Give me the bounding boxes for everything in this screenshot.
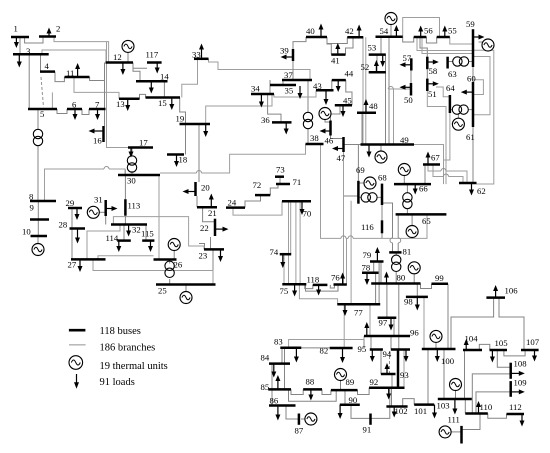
svg-text:117: 117 [146, 50, 159, 60]
load at bus 7 [97, 109, 99, 115]
bus 104 [463, 349, 482, 352]
bus 63 [446, 57, 449, 69]
wire 83-85 [284, 348, 286, 390]
wire g65 [411, 214, 413, 225]
svg-text:98: 98 [404, 297, 413, 307]
wire 40-42 [327, 37, 347, 44]
bus 55 [437, 36, 450, 39]
bus 5 [28, 108, 57, 111]
bus 18 [167, 153, 184, 156]
bus 56 [414, 36, 427, 39]
bus 7 [89, 108, 106, 111]
load at bus 3 [18, 54, 20, 62]
bus 30 [118, 174, 160, 177]
wire g31 [99, 211, 106, 213]
svg-text:38: 38 [310, 133, 319, 143]
wire 75-118 [305, 284, 313, 288]
bus 102 [386, 405, 407, 408]
thermal unit at bus 66 [398, 164, 410, 176]
svg-text:93: 93 [400, 370, 409, 380]
load at bus 52d [382, 55, 384, 62]
load at bus 56 [420, 31, 422, 37]
wire 89-92 [358, 388, 370, 395]
bus 52 [369, 71, 386, 74]
load at bus 19 [205, 124, 207, 132]
wire 94d (dashed) [389, 351, 391, 373]
svg-text:115: 115 [141, 229, 154, 239]
wire 19-18 [185, 124, 187, 155]
wire 34-36 [268, 94, 281, 122]
bus 48 [357, 112, 376, 115]
svg-text:20: 20 [201, 183, 210, 193]
bus 25 [156, 283, 216, 286]
wire g59 [479, 42, 483, 45]
wire 6-7 [82, 109, 89, 115]
wire 51-58 [426, 69, 428, 78]
bus 105 [490, 349, 508, 352]
bus 54 [376, 36, 403, 39]
svg-text:21: 21 [208, 208, 217, 218]
load at bus 86 [277, 406, 279, 416]
wire 96-95 [370, 336, 372, 350]
bus 67 [423, 163, 440, 166]
load at bus 76 [342, 278, 344, 285]
wire 21-22 [203, 207, 215, 222]
load at bus 43 [325, 90, 327, 99]
svg-text:50: 50 [404, 95, 413, 105]
bus 60 [472, 82, 475, 104]
bus 84 [269, 362, 290, 365]
svg-text:37: 37 [284, 70, 293, 80]
wire 49-53 [385, 55, 387, 145]
bus 29 [68, 207, 82, 210]
wire 41-42 [346, 37, 354, 54]
load at bus 84 [273, 364, 275, 372]
wire g69 [358, 182, 364, 184]
wire 101-102 [403, 399, 415, 407]
wire 35-37 [282, 80, 284, 85]
load at bus 70 [301, 201, 303, 209]
load at bus 42 [358, 30, 360, 37]
svg-text:112: 112 [509, 402, 522, 412]
load at bus 108 [511, 372, 520, 374]
svg-text:1: 1 [14, 24, 18, 34]
bus 100 [422, 348, 456, 351]
bus 16 [102, 126, 105, 142]
wire g89 [340, 381, 342, 390]
bus 117 [147, 61, 162, 64]
transformer 25-26 [165, 261, 174, 270]
wire 96-94b [390, 336, 392, 350]
load at bus 40 [320, 29, 322, 37]
transformer 81-80 [392, 255, 401, 264]
svg-text:74: 74 [270, 247, 279, 257]
svg-text:44: 44 [345, 69, 354, 79]
svg-text:19: 19 [176, 114, 185, 124]
svg-text:81: 81 [403, 247, 412, 257]
load at bus 59 [473, 36, 479, 38]
wire 114-32 [123, 225, 125, 241]
load at bus 74 [282, 254, 284, 262]
wire 85-86 [271, 389, 273, 405]
load at bus 104 [465, 345, 467, 351]
wire g103 [455, 391, 457, 399]
bus 62 [459, 182, 477, 185]
wire 106-107 [499, 298, 524, 350]
bus 66 [394, 183, 431, 186]
bus 73 [275, 175, 284, 178]
load at bus 18 [176, 155, 178, 162]
wire 103-110 [464, 399, 466, 414]
bus 94 [381, 373, 396, 376]
svg-text:49: 49 [400, 135, 409, 145]
load at bus 115 [150, 241, 152, 247]
svg-text:186 branches: 186 branches [100, 343, 156, 354]
wire 11-12 [90, 77, 105, 81]
svg-text:64: 64 [446, 83, 455, 93]
load at bus 78 [366, 273, 368, 280]
svg-text:2: 2 [56, 24, 60, 34]
wire 27-26 [98, 256, 154, 260]
wire 68-81a2 [392, 243, 394, 253]
wire 99-100 [447, 284, 449, 349]
wire 5-8x [37, 109, 39, 130]
bus 80 [371, 282, 420, 285]
load at bus 75 [294, 284, 296, 291]
wire 12-16 [104, 63, 106, 127]
transformer 69-68 [361, 193, 370, 202]
wire 110-112 [488, 414, 507, 419]
load at bus 6 [74, 109, 76, 115]
legend: buses symbol [69, 329, 86, 332]
wire 4-11 [55, 72, 64, 82]
load at bus 94 [386, 369, 388, 375]
load at bus 103 [454, 399, 456, 409]
wire 96-82 [363, 336, 365, 348]
wire 19-20 [198, 124, 200, 182]
wire 68-81a [382, 203, 393, 238]
thermal unit at bus 59 [482, 39, 494, 51]
wire 100-106 [451, 298, 494, 349]
load at bus 48 [365, 105, 367, 113]
bus 58 [426, 57, 429, 69]
svg-text:59: 59 [466, 19, 475, 29]
svg-text:10: 10 [22, 227, 31, 237]
wire 5-8y [37, 146, 39, 202]
bus 6 [67, 108, 82, 111]
wire 84-85 [271, 364, 273, 390]
svg-text:29: 29 [66, 198, 75, 208]
bus 85 [268, 388, 291, 391]
wire 53-54 [380, 37, 382, 55]
svg-text:92: 92 [370, 377, 379, 387]
svg-text:60: 60 [467, 74, 476, 84]
wire 38-65c [353, 214, 427, 238]
load at bus 58 [427, 61, 433, 63]
bus 20 [194, 182, 197, 196]
wire 110-111 [462, 414, 481, 430]
bus 10 [31, 235, 48, 238]
bus 46 [329, 121, 332, 136]
wire 79-80 [380, 262, 382, 284]
bus 14 [136, 80, 168, 83]
svg-text:95: 95 [358, 344, 367, 354]
wire 77-95 [369, 304, 371, 336]
bus 97 [378, 316, 397, 319]
svg-text:113: 113 [128, 201, 141, 211]
thermal unit at bus 65 [406, 226, 418, 238]
wire 66-67 [424, 165, 426, 185]
bus 2 [39, 35, 56, 38]
wire 12-117 [133, 63, 147, 69]
bus 118 [313, 284, 328, 287]
wire 17-30y [131, 171, 133, 175]
load at bus 45 [342, 105, 344, 111]
bus 78 [362, 272, 379, 275]
bus 83 [280, 346, 301, 349]
transformer 30-17 [127, 156, 136, 165]
wire hop 67-62b at 446 [444, 174, 449, 177]
svg-text:4: 4 [45, 61, 50, 71]
legend: loads symbol [76, 374, 78, 383]
svg-text:108: 108 [514, 359, 528, 369]
svg-text:61: 61 [466, 132, 475, 142]
load at bus 57 [405, 64, 411, 66]
wire 59-63b [469, 61, 473, 63]
bus 47 [342, 137, 345, 152]
bus 95 [370, 348, 383, 351]
svg-text:24: 24 [228, 198, 237, 208]
bus 50 [410, 83, 413, 96]
svg-text:103: 103 [437, 401, 450, 411]
bus 110 [465, 412, 488, 415]
load at bus 88 [310, 389, 312, 395]
wire 96-93 [398, 336, 400, 350]
load at bus 118 [318, 285, 320, 290]
bus 1 [11, 36, 29, 39]
wire 104-105 [479, 344, 490, 350]
bus 89 [331, 389, 358, 392]
wire 43-44 [331, 80, 333, 90]
svg-text:70: 70 [303, 209, 312, 219]
svg-text:96: 96 [410, 328, 419, 338]
wire g25 [185, 285, 187, 293]
wire g12 [127, 52, 129, 62]
wire 49-50 [388, 89, 393, 145]
wire 47-49 [344, 144, 361, 146]
wire 72-71 [270, 184, 278, 195]
wire g26 [173, 250, 175, 259]
bus 3 [13, 53, 49, 56]
wire 65-81b [397, 243, 399, 253]
load at bus 50 [405, 86, 411, 88]
wire 59-62 [473, 50, 494, 184]
svg-text:91 loads: 91 loads [100, 377, 135, 388]
wire 80-98 [416, 284, 418, 297]
bus 82 [330, 347, 353, 350]
svg-text:19 thermal units: 19 thermal units [100, 361, 168, 372]
svg-text:109: 109 [514, 378, 527, 388]
wire 37-38y [307, 129, 309, 144]
wire 89-90 [344, 390, 346, 405]
svg-text:79: 79 [363, 250, 372, 260]
load at bus 1 [15, 37, 17, 43]
svg-text:106: 106 [505, 286, 519, 296]
svg-text:47: 47 [337, 153, 346, 163]
wire 55-56 [426, 37, 436, 43]
wire 30-25 [158, 175, 160, 260]
svg-text:16: 16 [93, 136, 102, 146]
svg-text:84: 84 [261, 353, 270, 363]
wire 104-103 [464, 350, 466, 399]
wire 3-12 [42, 50, 106, 63]
bus 43 [316, 89, 334, 92]
wire 60-61c [473, 80, 483, 95]
wire g66 [403, 175, 405, 184]
wire 92-102 [391, 388, 393, 407]
legend: thermal unit symbol [69, 356, 83, 370]
load at bus 106 [495, 291, 497, 298]
wire 19-34 [206, 94, 272, 124]
load at bus 14 [150, 81, 152, 88]
bus 38 [306, 143, 324, 146]
bus 40 [306, 36, 327, 39]
svg-text:14: 14 [160, 72, 169, 82]
wire 34-43 [274, 90, 316, 97]
load at bus 51 [427, 83, 433, 85]
wire 85-88 [291, 389, 303, 394]
bus 57 [410, 58, 413, 70]
wire g111 [451, 431, 461, 433]
svg-text:3: 3 [26, 46, 30, 56]
bus 8 [30, 200, 56, 203]
wire g46 [325, 119, 331, 122]
wire 31-32 [105, 216, 107, 225]
svg-text:111: 111 [448, 415, 460, 425]
bus 86 [269, 404, 296, 407]
svg-text:30: 30 [127, 176, 136, 186]
load at bus 96d [405, 350, 407, 357]
wire 74-75 [283, 254, 285, 284]
bus 22 [214, 219, 217, 236]
load at bus 29 [76, 208, 78, 215]
bus 92 [369, 386, 404, 389]
wire 65-76 [346, 238, 348, 284]
svg-text:5: 5 [40, 109, 44, 119]
wire 24-70 [233, 201, 282, 215]
wire 37-39 [292, 61, 294, 80]
load at bus 23 [220, 249, 222, 256]
wire 98-100 [423, 297, 425, 349]
wire 56-58 [420, 37, 427, 57]
thermal unit at bus 54 [385, 13, 397, 25]
bus 114 [117, 239, 131, 242]
wire 14-15 [163, 81, 165, 97]
wire 28-27 [71, 229, 73, 260]
thermal unit at bus 61 [452, 118, 464, 130]
wire 22-23 [210, 237, 212, 249]
wire 68-69y [377, 196, 382, 198]
wire 25-26y [169, 279, 171, 285]
bus 35 [270, 84, 296, 87]
wire 67-62b [433, 165, 444, 177]
bus 72 [255, 194, 270, 197]
wire 100-103 [443, 349, 445, 399]
load at bus 13 [127, 99, 129, 106]
svg-text:55: 55 [448, 26, 457, 36]
load at bus 114 [118, 241, 120, 247]
svg-text:17: 17 [139, 138, 148, 148]
load at bus 101 [434, 405, 436, 413]
wire 23-32 [113, 217, 204, 250]
bus 12 [106, 61, 134, 64]
bus 17 [128, 146, 153, 149]
svg-text:118 buses: 118 buses [100, 326, 141, 337]
svg-text:48: 48 [369, 101, 378, 111]
wire 75-77 [299, 284, 337, 304]
wire 50-57 [410, 71, 412, 84]
load at bus 98 [416, 297, 418, 305]
wire 66-65x [406, 184, 408, 193]
load at bus 80 [386, 277, 388, 284]
wire 54-56 [403, 37, 414, 42]
load at bus 83 [295, 348, 297, 357]
svg-text:6: 6 [72, 100, 77, 110]
wire 34-37 [269, 80, 271, 94]
load at bus 39 [286, 56, 293, 58]
wire 77-82 [343, 304, 345, 348]
wire 110-108 [472, 374, 510, 414]
wire 2-12 [54, 37, 109, 63]
bus 42 [347, 36, 363, 39]
wire hop 68-81 at 240 [390, 238, 393, 243]
load at bus 16 [94, 130, 104, 132]
bus 41 [331, 53, 345, 56]
svg-text:102: 102 [395, 406, 408, 416]
wire 24-72 [245, 195, 261, 208]
bus 71 [276, 183, 290, 186]
wire 81-80x [395, 252, 397, 255]
bus 26 [154, 258, 177, 261]
bus 28 [70, 227, 86, 230]
transformer 66-65 [403, 193, 412, 202]
wire 45-46 [331, 105, 341, 120]
wire 115-32 [145, 225, 147, 241]
bus 11 [65, 76, 90, 79]
load at bus 33 [201, 49, 203, 59]
wire 100-101 [427, 349, 429, 405]
svg-text:27: 27 [68, 260, 77, 270]
wire 105-107 [504, 350, 525, 356]
svg-text:100: 100 [441, 356, 455, 366]
wire 51-66 [427, 91, 446, 184]
load at bus 49 [368, 145, 370, 153]
bus 31 [104, 200, 107, 216]
svg-text:12: 12 [113, 52, 122, 62]
wire 27-25 [93, 259, 213, 284]
wire 118-76 [330, 285, 334, 289]
load at bus 102 [393, 407, 395, 413]
bus 19 [180, 123, 211, 126]
wire 52-53 [376, 55, 378, 73]
svg-text:53: 53 [368, 43, 377, 53]
wire 11-13 [74, 77, 119, 99]
thermal unit at bus 103 [450, 379, 462, 391]
svg-text:62: 62 [477, 186, 486, 196]
svg-text:35: 35 [285, 86, 294, 96]
svg-text:110: 110 [480, 402, 493, 412]
bus 76 [334, 283, 347, 286]
